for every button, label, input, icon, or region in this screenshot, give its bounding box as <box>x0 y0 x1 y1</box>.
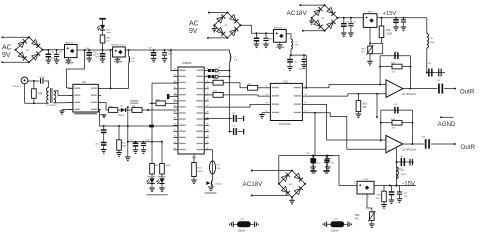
svg-text:75R: 75R <box>38 93 43 96</box>
svg-text:?uH: ?uH <box>234 60 238 62</box>
svg-text:REG1117 +: REG1117 + <box>274 27 286 29</box>
svg-text:DIR9001: DIR9001 <box>182 63 192 65</box>
svg-text:C30: C30 <box>95 144 98 146</box>
svg-text:220R: 220R <box>386 33 392 36</box>
svg-text:100n: 100n <box>299 69 303 71</box>
svg-text:C04: C04 <box>95 54 98 56</box>
svg-text:+: + <box>387 148 389 152</box>
svg-text:7915: 7915 <box>363 179 369 181</box>
svg-text:C01: C01 <box>51 52 54 54</box>
svg-text:5k6: 5k6 <box>363 106 368 109</box>
svg-text:100uH: 100uH <box>238 228 246 232</box>
svg-text:240R: 240R <box>166 165 171 167</box>
svg-text:AC: AC <box>189 20 199 27</box>
svg-text:C33: C33 <box>146 139 149 141</box>
svg-text:C29: C29 <box>96 131 99 133</box>
svg-text:AC18V: AC18V <box>287 10 308 17</box>
svg-text:REG1117-3.3 +: REG1117-3.3 + <box>111 45 127 47</box>
svg-text:9V: 9V <box>2 52 11 59</box>
svg-text:D01: D01 <box>120 106 123 108</box>
svg-text:C17: C17 <box>232 126 235 128</box>
svg-text:100n: 100n <box>330 163 334 165</box>
svg-text:C16: C16 <box>232 113 235 115</box>
svg-text:R04: R04 <box>109 106 112 108</box>
svg-text:3mm: 3mm <box>106 32 111 34</box>
svg-text:IC5: IC5 <box>283 80 288 84</box>
svg-text:AGND: AGND <box>438 121 456 128</box>
svg-text:10u: 10u <box>149 50 152 52</box>
svg-text:AC18V: AC18V <box>243 181 263 188</box>
svg-text:10u: 10u <box>294 62 297 64</box>
svg-text:C02: C02 <box>59 52 62 54</box>
svg-text:100uH: 100uH <box>331 228 339 232</box>
svg-text:R15: R15 <box>363 103 368 106</box>
svg-text:−: − <box>387 139 389 143</box>
svg-text:10uH: 10uH <box>429 42 434 44</box>
svg-text:AC: AC <box>2 45 12 52</box>
svg-text:IC6: IC6 <box>82 80 87 84</box>
svg-text:PL-DMT02: PL-DMT02 <box>46 105 57 107</box>
svg-text:10u: 10u <box>317 163 320 165</box>
svg-text:-15V: -15V <box>402 181 415 187</box>
svg-text:C30: C30 <box>346 22 349 24</box>
svg-text:100n: 100n <box>404 196 408 198</box>
svg-text:1/2 OPA2134: 1/2 OPA2134 <box>402 148 417 151</box>
svg-text:OutR: OutR <box>460 88 475 95</box>
svg-text:4k7: 4k7 <box>355 217 360 220</box>
svg-text:4700u: 4700u <box>51 58 56 60</box>
svg-text:+: + <box>387 92 389 96</box>
svg-text:9V: 9V <box>189 28 198 35</box>
svg-text:SPDIF in: SPDIF in <box>12 86 22 88</box>
svg-text:C31: C31 <box>353 22 356 24</box>
svg-text:REG1117 +: REG1117 + <box>65 42 77 44</box>
svg-text:+15V: +15V <box>383 11 397 17</box>
svg-text:C18 12p: C18 12p <box>215 183 222 185</box>
svg-text:100n: 100n <box>269 39 273 41</box>
svg-text:240R: 240R <box>122 146 127 148</box>
svg-text:7815: 7815 <box>368 12 374 14</box>
svg-text:?uH: ?uH <box>295 45 299 47</box>
svg-text:OutR: OutR <box>461 144 476 151</box>
svg-text:TDA1543: TDA1543 <box>279 122 291 126</box>
svg-text:10uH: 10uH <box>401 174 406 176</box>
svg-text:240R: 240R <box>154 165 159 167</box>
svg-text:C32: C32 <box>130 139 133 141</box>
svg-text:100n: 100n <box>168 54 172 56</box>
svg-text:100u: 100u <box>95 57 99 59</box>
svg-text:240R: 240R <box>198 171 203 173</box>
svg-text:R06: R06 <box>386 29 391 32</box>
svg-text:C 100n: C 100n <box>38 77 44 79</box>
svg-text:R14: R14 <box>122 143 125 145</box>
svg-text:1/2 OPA2134: 1/2 OPA2134 <box>402 93 417 96</box>
svg-text:24M: 24M <box>217 168 221 170</box>
svg-text:−: − <box>387 83 389 87</box>
svg-text:1N4148: 1N4148 <box>118 115 124 117</box>
